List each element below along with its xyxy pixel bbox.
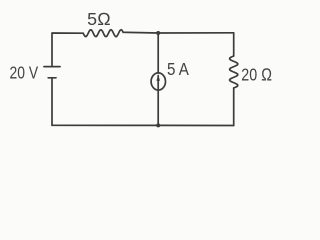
junction node top [156, 31, 160, 35]
wire middle drop to current source [157, 33, 159, 73]
wire middle below current source [157, 90, 159, 126]
svg-text:5Ω: 5Ω [87, 9, 111, 29]
current source I1 circle [151, 73, 165, 90]
battery V1 short plate [48, 77, 56, 79]
svg-text:20 V: 20 V [10, 62, 39, 82]
svg-text:5 A: 5 A [167, 59, 189, 79]
battery V1 long plate [44, 66, 60, 68]
junction node bottom [156, 123, 160, 127]
wire top-left segment [52, 33, 83, 66]
wire left below battery [51, 78, 53, 125]
svg-text:20 Ω: 20 Ω [241, 64, 272, 84]
wire right drop to resistor [233, 33, 235, 56]
resistor R1 5ohm zigzag [83, 30, 123, 37]
wire top-right segment [123, 31, 234, 34]
current source arrow shaft [157, 76, 159, 89]
current source arrowhead [156, 75, 160, 81]
resistor R2 20ohm zigzag [230, 56, 238, 88]
wire bottom [52, 124, 234, 126]
wire right below resistor [233, 88, 235, 126]
